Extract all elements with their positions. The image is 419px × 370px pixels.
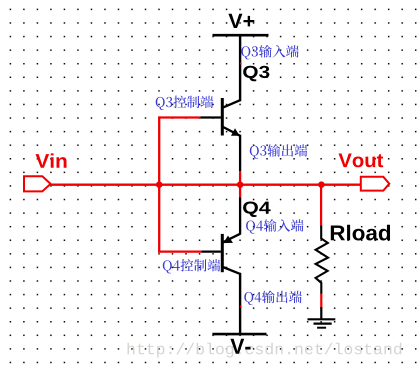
wire Q4 base black stub bbox=[201, 250, 221, 252]
label Vout bbox=[338, 154, 383, 168]
transistor Q4 bbox=[222, 234, 240, 274]
junction node Rload bbox=[318, 181, 325, 188]
junction node left bbox=[156, 181, 163, 188]
wire Q3 base red bbox=[159, 116, 200, 118]
label V+ bbox=[228, 14, 254, 28]
label Q4输入端 bbox=[246, 219, 304, 234]
power rail V+ bbox=[213, 34, 269, 37]
wire node to Q4 emitter red bbox=[239, 185, 241, 198]
label Q3控制端 bbox=[156, 96, 214, 110]
transistor Q3 bbox=[222, 98, 240, 136]
wire V+ to Q3 collector bbox=[239, 35, 241, 101]
label Q4 bbox=[243, 201, 270, 217]
wire Q4 emitter vertical black bbox=[239, 198, 241, 235]
ground bbox=[308, 319, 336, 327]
wire Q4 base red bbox=[159, 250, 201, 252]
power rail V- bbox=[212, 333, 266, 336]
wire Q3 base black stub bbox=[200, 116, 221, 118]
label Vin bbox=[36, 153, 67, 167]
wire to ground black bbox=[320, 307, 322, 319]
wire left vertical bbox=[158, 116, 160, 252]
label Q3 bbox=[243, 66, 269, 82]
label Q3输入端 bbox=[241, 45, 299, 60]
wire Q4 collector vertical bbox=[239, 273, 241, 334]
watermark text bbox=[128, 343, 402, 358]
wire Q3 emitter vertical black bbox=[239, 135, 241, 172]
label Rload bbox=[331, 225, 390, 241]
wire main rail Vin to Vout bbox=[51, 184, 361, 186]
wire node to Rload red bbox=[320, 185, 322, 226]
junction node output bbox=[237, 181, 244, 188]
label Q4控制端 bbox=[163, 259, 221, 273]
wire Rload bottom red pin bbox=[320, 294, 322, 307]
wire Q3 emitter red part bbox=[239, 171, 241, 184]
pin mark Q4 output bbox=[240, 306, 242, 308]
label V- bbox=[230, 339, 250, 354]
label Q4输出端 bbox=[244, 291, 302, 306]
resistor Rload bbox=[316, 225, 328, 294]
label Q3输出端 bbox=[250, 144, 308, 159]
pin mark Q3 input bbox=[240, 63, 242, 65]
port Vout bbox=[361, 177, 390, 191]
port Vin bbox=[24, 176, 51, 191]
